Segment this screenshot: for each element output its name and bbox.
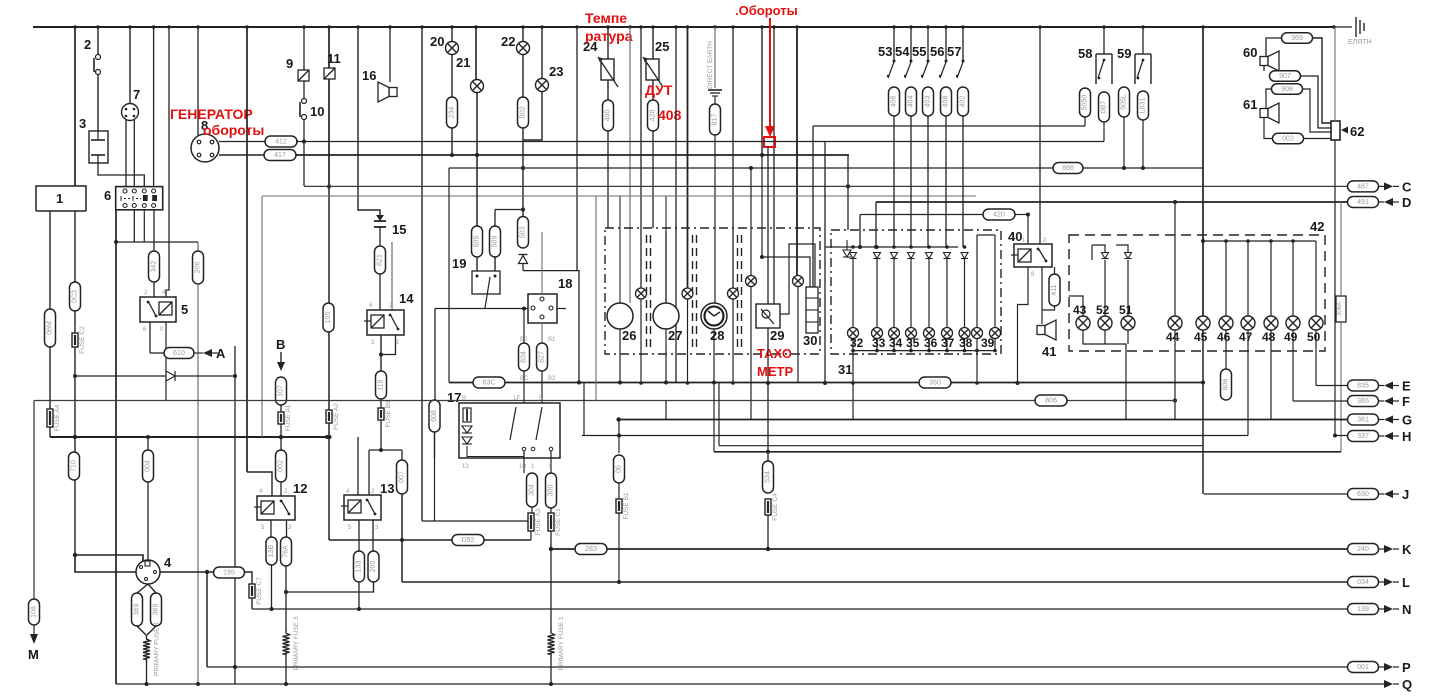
generator 8 <box>191 134 219 162</box>
connector 4 <box>136 560 160 584</box>
svg-text:FUSE C7: FUSE C7 <box>256 577 263 605</box>
wire lamp49 down to F <box>1292 330 1294 401</box>
wire bus to box6 pin <box>153 27 155 187</box>
connector H <box>1348 431 1379 442</box>
wire bus to conn7 <box>129 27 131 104</box>
svg-text:FUSE A3: FUSE A3 <box>535 508 542 535</box>
svg-text:M: M <box>28 647 39 662</box>
wire col 995 up <box>994 235 996 328</box>
wire 400 line <box>34 400 1176 402</box>
wire F link <box>1293 400 1347 402</box>
wire spk60 to 907 <box>1263 66 1265 71</box>
wire node down to P <box>206 572 208 667</box>
lamp 46 <box>1219 316 1233 330</box>
svg-text:1B: 1B <box>519 464 526 470</box>
svg-text:403: 403 <box>925 96 932 108</box>
svg-text:57: 57 <box>947 44 961 59</box>
wire relay18 right stub <box>557 308 566 310</box>
svg-text:821: 821 <box>377 254 384 266</box>
wire label 002 <box>276 450 287 482</box>
svg-text:обороты: обороты <box>203 122 264 138</box>
svg-text:FUSE C2: FUSE C2 <box>79 326 86 354</box>
wire K line <box>551 548 1348 550</box>
wire label 908 <box>1272 84 1303 95</box>
wire fuse A4 to bus437 <box>49 427 51 437</box>
svg-text:3: 3 <box>79 116 86 131</box>
wire Q line <box>116 683 1384 685</box>
wire 234 to 155 <box>451 128 453 155</box>
svg-text:002: 002 <box>278 460 285 472</box>
wire lamp to bottom bus <box>928 339 930 351</box>
zener first <box>843 240 851 257</box>
wire 13B to N <box>271 565 273 609</box>
svg-text:0C3: 0C3 <box>72 290 79 303</box>
lamp 51 <box>1121 316 1135 330</box>
wire H pill link <box>1335 435 1347 437</box>
svg-text:806: 806 <box>1045 398 1057 405</box>
wire bus to switch 56 <box>945 27 947 62</box>
wire label 283 <box>575 544 607 555</box>
wire 428 down to cluster edge <box>652 131 654 228</box>
lamp in cluster b <box>682 288 693 299</box>
svg-text:342: 342 <box>151 261 158 273</box>
svg-text:27: 27 <box>668 328 682 343</box>
wire fuse C2 down to node <box>74 347 76 555</box>
svg-text:45: 45 <box>1194 330 1208 344</box>
wire E link <box>1316 385 1347 387</box>
wire lamp e down <box>797 286 799 383</box>
svg-text:834: 834 <box>521 351 528 363</box>
wire lamp23 merge <box>523 91 542 140</box>
wire 452 line <box>714 451 1341 453</box>
svg-text:35: 35 <box>906 336 920 350</box>
switch box 19 <box>472 271 500 308</box>
wire bus to switch 57 <box>962 27 964 62</box>
wire 907 to 62 <box>1300 76 1331 128</box>
fuse C2 <box>72 326 86 354</box>
wire 435 down <box>434 309 436 401</box>
svg-text:105: 105 <box>325 312 332 324</box>
wire 610 to arrow A <box>194 352 203 354</box>
wire lamps 43-51 bottoms <box>1083 330 1126 420</box>
svg-text:835: 835 <box>1357 383 1369 390</box>
svg-text:PRIMARY FUSE 1: PRIMARY FUSE 1 <box>558 616 565 670</box>
svg-text:22: 22 <box>501 34 515 49</box>
wire 195 to fuse C7 <box>244 572 252 584</box>
wire label 610 <box>164 348 194 359</box>
wire diode to lamp 35 <box>910 259 912 328</box>
wire pills to resistor <box>137 626 146 635</box>
wire bus col 774 <box>773 27 775 304</box>
svg-text:FUSE A4: FUSE A4 <box>54 404 61 431</box>
wire box17 out2 <box>550 451 552 473</box>
wire C line <box>304 185 1347 187</box>
node 540/402 <box>400 538 404 542</box>
wire G line <box>619 419 1347 421</box>
lamp 39 <box>990 328 1001 339</box>
wire col853 down <box>852 351 854 420</box>
arrow A <box>203 349 212 357</box>
svg-text:44: 44 <box>1166 330 1180 344</box>
wire fuse4 to Q <box>146 663 148 684</box>
wire 118 to fuse B9 <box>380 399 382 408</box>
wire box1 right lead down <box>74 211 76 282</box>
dashed box 42 <box>1069 235 1325 351</box>
wire 126 line <box>813 125 1085 127</box>
wire label 509 <box>490 226 501 257</box>
svg-text:41: 41 <box>1042 344 1056 359</box>
svg-text:FUSE C4: FUSE C4 <box>772 493 779 521</box>
wire 004 down to conn4 <box>147 482 149 560</box>
svg-text:5: 5 <box>181 302 188 317</box>
svg-text:F: F <box>1402 394 1410 409</box>
wire label 300 <box>546 473 557 508</box>
wire bus to switch2 <box>97 27 99 55</box>
svg-text:505: 505 <box>474 236 481 248</box>
wire 002 to relay12 <box>280 482 282 496</box>
wire label 420 <box>983 209 1015 220</box>
svg-text:206: 206 <box>195 262 202 274</box>
svg-text:D: D <box>1402 195 1411 210</box>
wire lamp to bottom bus <box>910 339 912 351</box>
wire label 806v <box>1221 369 1232 400</box>
wire relay13 feed 450 <box>369 449 402 451</box>
wire 420 to relay40 <box>1027 215 1029 245</box>
svg-text:17: 17 <box>447 390 461 405</box>
svg-text:408: 408 <box>658 107 682 123</box>
wire lamp to bottom bus <box>946 339 948 351</box>
wire fuse C1 down <box>550 531 552 629</box>
svg-text:N: N <box>1402 602 1411 617</box>
wire 306A up <box>1340 202 1342 296</box>
arrow M <box>30 634 38 644</box>
wire lamp44 down <box>1174 330 1176 420</box>
wire lamp to bottom bus <box>994 339 996 351</box>
svg-text:411: 411 <box>1051 284 1058 295</box>
gauge 27 <box>653 303 679 329</box>
wire G to fuse B1 <box>618 420 620 454</box>
switch 11 <box>324 68 335 79</box>
wire bus col 329 <box>328 27 330 186</box>
svg-text:30: 30 <box>803 333 817 348</box>
wire label 408 <box>941 87 952 116</box>
svg-text:76A: 76A <box>283 545 290 558</box>
wire lamp48 down to G <box>1270 330 1272 420</box>
wire label 406 <box>889 87 900 116</box>
wire 270 over to 579 <box>523 271 579 383</box>
svg-text:J: J <box>1402 487 1409 502</box>
wire bus to lamp23 <box>541 27 543 79</box>
wire label 304 <box>527 473 538 507</box>
relay box 17 <box>459 403 560 458</box>
wire 412 line across <box>296 141 1104 143</box>
wire conn4 to 195 <box>160 571 214 573</box>
node fuse4 Q <box>145 682 149 686</box>
svg-text:001: 001 <box>1357 664 1369 671</box>
diode col 1 <box>874 253 881 259</box>
wire diode line <box>75 375 235 377</box>
node P riser <box>205 570 209 574</box>
lamp 50 <box>1309 316 1323 330</box>
svg-text:ДУТ: ДУТ <box>645 82 673 98</box>
node col235 P line <box>233 665 237 669</box>
node 75/555 <box>73 553 77 557</box>
wire diode52 feed <box>1092 245 1105 252</box>
wire G link <box>1271 419 1347 421</box>
svg-text:FUSE B1: FUSE B1 <box>623 492 630 519</box>
wire label 400 <box>603 100 614 131</box>
wire bus to sensor24 <box>607 27 609 59</box>
wire label 503 <box>518 217 529 249</box>
wire switch2 to cap3 <box>97 74 99 131</box>
gauge 26 <box>607 303 633 329</box>
wire clock col down <box>713 329 715 452</box>
lamp 23 <box>536 79 549 92</box>
wire diode to lamp 32 <box>852 259 854 328</box>
wire fuse B1 to L <box>618 513 620 582</box>
wire 450 to 007 <box>401 450 403 460</box>
wire col235 down <box>234 346 236 684</box>
svg-text:K: K <box>1402 542 1412 557</box>
lamp 38 <box>959 328 970 339</box>
wire label 710 <box>69 452 80 480</box>
wire label 06M <box>45 309 56 347</box>
clock 28 <box>701 303 727 329</box>
wire relay13 out2 <box>372 520 374 551</box>
wire fuse C4 to K <box>767 515 769 549</box>
wire diode to lamp 37 <box>946 259 948 328</box>
wire label 369b <box>151 593 162 626</box>
wire cap15 to 821 <box>379 234 381 246</box>
svg-text:11: 11 <box>327 51 341 66</box>
wire label 412 <box>265 136 297 147</box>
svg-text:B2: B2 <box>548 376 556 382</box>
wire bus direct earth <box>714 27 716 88</box>
wire bus42 to lamp50 <box>1315 241 1317 316</box>
svg-text:406: 406 <box>891 96 898 108</box>
svg-text:0B7: 0B7 <box>1101 101 1108 114</box>
wire lamp d down <box>750 286 752 420</box>
wire 848 col <box>847 155 849 230</box>
relay 40 <box>1011 244 1052 267</box>
wire box42 inner bus <box>1204 240 1316 242</box>
svg-text:Q: Q <box>1402 677 1412 692</box>
svg-text:L831: L831 <box>1140 98 1147 114</box>
wire gray 196 <box>262 195 976 197</box>
lamp 34 <box>889 328 900 339</box>
svg-text:FUSE A1: FUSE A1 <box>285 404 292 431</box>
fuse C1 <box>548 508 562 536</box>
fuse B1 <box>616 492 630 519</box>
node 437 crossing <box>73 435 77 439</box>
lamp 20 <box>446 42 459 55</box>
wire diode to lamp 33 <box>876 259 878 328</box>
wire 306A down <box>1340 322 1342 452</box>
wire to relay12 <box>247 472 272 496</box>
wire label 817 <box>710 104 721 135</box>
wire bus col 642 <box>640 27 642 288</box>
svg-text:412: 412 <box>275 139 287 146</box>
svg-text:133: 133 <box>356 561 363 573</box>
svg-text:9: 9 <box>286 56 293 71</box>
wire bus to switch59 <box>1142 27 1144 54</box>
svg-text:29: 29 <box>770 328 784 343</box>
wire bus col 577 <box>576 27 578 271</box>
wire relay14 out3 to 118 <box>380 335 382 371</box>
diode col 4 <box>926 253 933 259</box>
wire label 002b <box>1273 133 1304 144</box>
svg-text:002: 002 <box>1282 136 1294 143</box>
wire lamp d up <box>750 168 752 276</box>
wire B02 down <box>522 128 524 217</box>
svg-text:118: 118 <box>378 379 385 390</box>
wire bus42 to lamp46 <box>1225 241 1227 316</box>
svg-text:25: 25 <box>655 39 669 54</box>
svg-text:23: 23 <box>549 64 563 79</box>
wire label 428 <box>648 100 659 131</box>
svg-text:B: B <box>462 396 466 402</box>
wire spk61 to 002 <box>1264 118 1272 139</box>
wire to 206 <box>197 242 199 251</box>
wire label 0C3 <box>70 282 81 311</box>
fuse A2 <box>326 403 340 430</box>
svg-text:56: 56 <box>930 44 944 59</box>
svg-text:28: 28 <box>710 328 724 343</box>
wire 0C3 to fuse C2 <box>74 311 76 333</box>
switch 2 <box>94 55 101 75</box>
wire col 596 <box>595 196 597 401</box>
svg-text:5050: 5050 <box>1082 95 1089 111</box>
wire label 404 <box>906 87 917 116</box>
wire bus to lamp22 <box>522 27 524 42</box>
fuse A3 <box>528 508 542 535</box>
node diode line left <box>73 374 77 378</box>
connector 62 <box>1331 121 1340 140</box>
wire 437 to 004 <box>147 437 149 450</box>
svg-text:240: 240 <box>1357 546 1369 553</box>
svg-text:58: 58 <box>1078 46 1092 61</box>
svg-text:14: 14 <box>399 291 414 306</box>
wire lamp to bottom bus <box>964 339 966 351</box>
wire bus42 to lamp47 <box>1247 241 1249 316</box>
wire node to conn4 top <box>75 555 143 563</box>
svg-text:26: 26 <box>622 328 636 343</box>
svg-text:43: 43 <box>1073 303 1087 317</box>
diode above 18 <box>519 255 528 264</box>
svg-text:E: E <box>1402 379 1411 394</box>
wire bus to speaker16 <box>389 27 391 82</box>
svg-text:610: 610 <box>173 350 185 357</box>
svg-text:МЕТР: МЕТР <box>757 364 793 379</box>
wire tacho down <box>767 328 769 461</box>
svg-text:32: 32 <box>850 336 864 350</box>
wire 908 to spk61 <box>1266 89 1272 108</box>
wire relay40 out3 <box>1054 267 1056 274</box>
connector L <box>1348 577 1379 588</box>
wire bus col 686 <box>687 27 689 288</box>
wire into 18 top <box>541 232 543 294</box>
svg-text:ратура: ратура <box>585 28 633 44</box>
svg-text:16: 16 <box>362 68 376 83</box>
wire bus to lamp20 <box>451 27 453 42</box>
svg-text:51: 51 <box>1119 303 1133 317</box>
dashed box 31 <box>831 230 1001 354</box>
wire lamp47 down to H <box>1247 330 1249 436</box>
wire bus to switch 53 <box>893 27 895 62</box>
wire 62 down to H <box>1334 140 1336 436</box>
connector C <box>1348 181 1379 192</box>
connector D <box>1348 197 1379 208</box>
wire relay12 out1 <box>270 520 272 537</box>
resistor primary fuse 3 <box>283 616 301 670</box>
wire 54 down to ladder <box>910 116 912 247</box>
wire 18 bottom <box>541 323 543 343</box>
svg-text:P: P <box>1402 660 1411 675</box>
wire gen to 412 <box>219 141 266 143</box>
wire gauge27 down <box>665 329 667 383</box>
svg-text:806: 806 <box>1223 379 1230 391</box>
wire bus to 62 <box>1334 27 1336 121</box>
svg-text:B02: B02 <box>520 106 527 119</box>
wire 450 to relay13 pin <box>368 450 370 495</box>
switch 58 <box>1096 54 1112 84</box>
wire 420 line <box>860 214 983 216</box>
wire bus col 247 <box>246 27 248 472</box>
svg-text:369: 369 <box>1291 35 1303 42</box>
wire diode to lamp52 <box>1104 260 1106 316</box>
wire diode51 feed <box>1116 245 1128 252</box>
svg-text:50: 50 <box>1307 330 1321 344</box>
wire label 234 <box>447 97 458 128</box>
svg-text:13: 13 <box>462 464 469 470</box>
wire lamp to bottom bus <box>876 339 878 351</box>
svg-text:BC: BC <box>520 376 529 382</box>
wire label 0B7 <box>1099 92 1110 122</box>
svg-text:13: 13 <box>380 481 394 496</box>
wire 10 down to C line <box>303 119 305 186</box>
svg-text:Темпе: Темпе <box>585 10 627 26</box>
wire lamp b down <box>687 299 689 383</box>
lamp 47 <box>1241 316 1255 330</box>
wire 369 to spk60 <box>1266 38 1282 56</box>
fuse C4 <box>765 493 779 521</box>
wire top power bus <box>33 26 1334 28</box>
wire relay40 out1 <box>1018 267 1029 383</box>
wire label 827 <box>537 343 548 371</box>
wire 762 to 30 <box>762 257 810 287</box>
wire lamp to bottom bus <box>893 339 895 351</box>
wire thick bus 437 <box>50 436 330 438</box>
svg-text:283: 283 <box>585 546 597 553</box>
wire fuse A2 down to 540 <box>328 423 330 540</box>
wire label 806h <box>1035 395 1067 406</box>
svg-text:004: 004 <box>145 460 152 472</box>
svg-text:503: 503 <box>520 226 527 238</box>
wire 834 to box17 <box>523 371 525 403</box>
lamp 49 <box>1286 316 1300 330</box>
svg-text:2: 2 <box>84 37 91 52</box>
svg-text:06: 06 <box>616 465 623 473</box>
svg-text:21: 21 <box>456 55 470 70</box>
connector Q <box>1384 680 1393 688</box>
wire label D92 <box>452 535 484 546</box>
svg-text:4: 4 <box>164 555 172 570</box>
diodes in box42 <box>1102 253 1109 259</box>
wire bus col 732 <box>732 27 734 288</box>
svg-text:62: 62 <box>1350 124 1364 139</box>
wire J line <box>1204 493 1347 495</box>
fuse A4 <box>47 404 61 431</box>
